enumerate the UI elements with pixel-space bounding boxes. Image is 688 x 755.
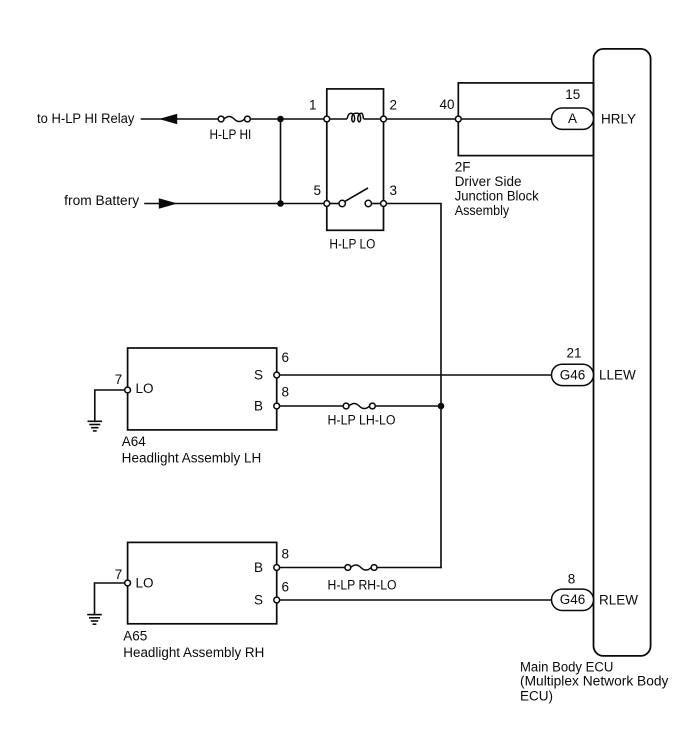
relay switch contact left <box>339 200 345 206</box>
wire RH B pin 8 to fuse <box>277 567 345 569</box>
wire pin 2 to pin 40 <box>384 118 459 120</box>
wire RH pin 7 to ground <box>95 583 128 615</box>
svg-text:H-LP HI: H-LP HI <box>210 127 252 142</box>
wire pin 3 right then down to RH B row <box>384 204 442 568</box>
arrow from Battery (points right) <box>159 198 178 209</box>
svg-text:8: 8 <box>282 547 290 562</box>
pin circle LH 7 <box>125 387 131 393</box>
terminal G46 oval RLEW <box>552 589 594 610</box>
Main Body ECU box <box>594 49 651 656</box>
wire vertical link between junctions <box>280 119 282 204</box>
svg-text:A65: A65 <box>123 629 147 644</box>
svg-text:H-LP LO: H-LP LO <box>329 237 375 252</box>
svg-text:LO: LO <box>136 381 154 396</box>
svg-text:(Multiplex Network Body: (Multiplex Network Body <box>520 674 669 689</box>
svg-text:15: 15 <box>565 87 580 102</box>
wire RH S pin 6 to terminal G46 RLEW <box>277 599 552 601</box>
relay coil wire stubs <box>330 118 347 120</box>
pin circle RH 7 <box>125 580 131 586</box>
svg-text:HRLY: HRLY <box>601 111 636 126</box>
node junction dot LH B wire <box>438 403 445 410</box>
svg-text:8: 8 <box>282 385 290 400</box>
svg-text:G46: G46 <box>560 592 586 607</box>
svg-text:S: S <box>254 368 263 383</box>
wire from Battery to pin 5 <box>145 203 327 205</box>
svg-text:40: 40 <box>439 97 454 112</box>
node junction dot top (HI wire) <box>277 116 284 123</box>
svg-text:8: 8 <box>568 572 576 587</box>
headlight assembly RH box A65 <box>128 542 277 623</box>
pin circle relay 5 <box>324 201 330 207</box>
svg-text:7: 7 <box>115 567 123 582</box>
svg-text:from Battery: from Battery <box>64 193 139 208</box>
pin circle RH 8 B <box>274 565 280 571</box>
relay coil <box>347 113 363 122</box>
svg-text:G46: G46 <box>560 367 586 382</box>
svg-text:Junction Block: Junction Block <box>455 189 539 204</box>
pin circle RH 6 S <box>274 597 280 603</box>
svg-text:5: 5 <box>313 183 321 198</box>
pin circle relay 3 <box>381 201 387 207</box>
ground symbol LH <box>88 421 103 431</box>
svg-text:to H-LP HI Relay: to H-LP HI Relay <box>37 111 135 126</box>
svg-text:A64: A64 <box>122 434 147 449</box>
svg-text:LO: LO <box>136 575 154 590</box>
relay switch contact right <box>365 200 371 206</box>
svg-text:LLEW: LLEW <box>599 368 636 383</box>
svg-text:2: 2 <box>390 98 398 113</box>
wire LH pin 7 to ground <box>95 390 128 421</box>
terminal A oval <box>552 108 594 129</box>
svg-text:S: S <box>254 593 263 608</box>
fuse H-LP LH-LO <box>343 403 375 409</box>
svg-text:H-LP LH-LO: H-LP LH-LO <box>328 413 396 428</box>
wire fuse H-LP LH-LO to junction at vertical <box>375 405 441 407</box>
ground symbol RH <box>87 615 102 625</box>
fuse H-LP RH-LO <box>345 565 377 571</box>
svg-text:1: 1 <box>309 98 317 113</box>
svg-text:Headlight Assembly RH: Headlight Assembly RH <box>123 645 264 660</box>
arrow to H-LP HI Relay (points left) <box>159 114 177 125</box>
headlight assembly LH box A64 <box>128 348 277 430</box>
terminal G46 oval LLEW <box>552 364 594 385</box>
wire to H-LP HI Relay arrow segment <box>142 118 219 120</box>
wire fuse H-LP RH-LO to vertical <box>378 567 441 569</box>
svg-text:B: B <box>254 560 263 575</box>
wire fuse H-LP HI to junction and pin 1 <box>250 118 327 120</box>
wire LH S pin 6 to terminal G46 LLEW <box>277 374 552 376</box>
svg-text:B: B <box>254 399 263 414</box>
svg-text:2F: 2F <box>455 160 471 175</box>
svg-text:Main Body ECU: Main Body ECU <box>520 659 613 674</box>
junction block 2F box <box>458 83 593 156</box>
svg-text:A: A <box>568 111 577 126</box>
wire pin 40 to terminal A <box>458 118 551 120</box>
pin circle LH 6 S <box>274 372 280 378</box>
svg-text:3: 3 <box>390 183 398 198</box>
svg-text:Driver Side: Driver Side <box>455 174 522 189</box>
svg-text:H-LP RH-LO: H-LP RH-LO <box>328 578 397 593</box>
fuse H-LP HI <box>218 116 250 122</box>
svg-text:Headlight Assembly LH: Headlight Assembly LH <box>122 451 262 466</box>
relay H-LP LO box <box>327 89 384 230</box>
svg-text:6: 6 <box>282 350 290 365</box>
relay switch blade <box>345 188 368 201</box>
pin circle 40 <box>455 116 461 122</box>
svg-text:6: 6 <box>282 580 290 595</box>
svg-text:21: 21 <box>566 345 581 360</box>
svg-text:7: 7 <box>115 372 123 387</box>
pin circle relay 2 <box>381 116 387 122</box>
pin circle relay 1 <box>324 116 330 122</box>
node junction dot battery wire <box>277 200 284 207</box>
svg-text:RLEW: RLEW <box>599 593 638 608</box>
svg-text:Assembly: Assembly <box>455 203 510 218</box>
pin circle LH 8 B <box>274 403 280 409</box>
relay switch wire stubs <box>330 203 339 205</box>
svg-text:ECU): ECU) <box>520 688 553 703</box>
wire LH B pin 8 to fuse <box>277 405 344 407</box>
